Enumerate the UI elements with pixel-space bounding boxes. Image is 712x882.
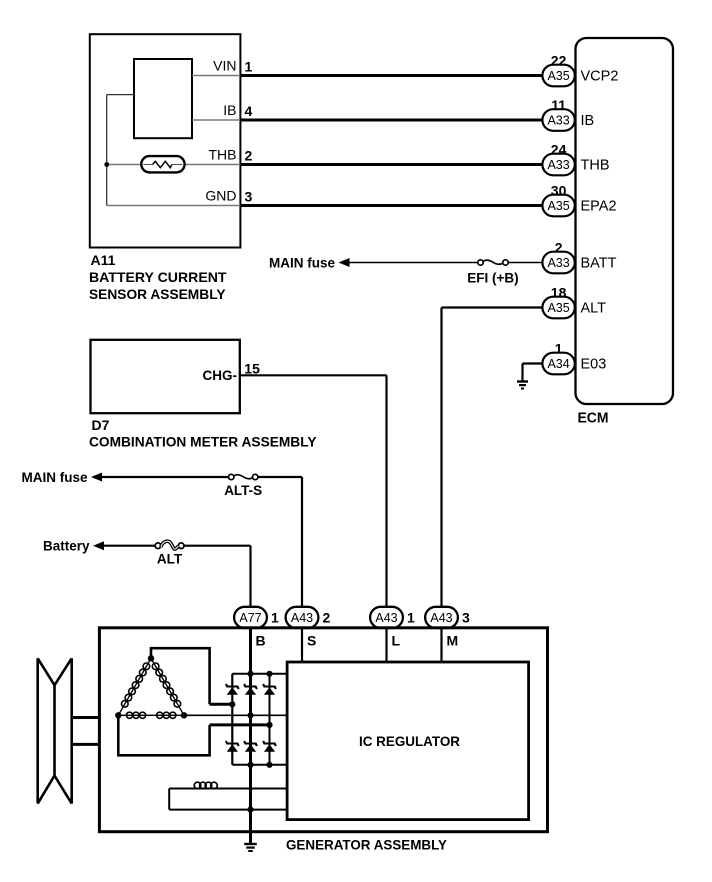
svg-text:A33: A33 <box>547 158 569 172</box>
svg-text:VCP2: VCP2 <box>581 69 619 85</box>
svg-text:ALT: ALT <box>157 552 183 567</box>
svg-text:A43: A43 <box>375 611 397 625</box>
svg-text:A11: A11 <box>91 252 116 268</box>
svg-text:ALT: ALT <box>581 301 607 317</box>
svg-text:SENSOR ASSEMBLY: SENSOR ASSEMBLY <box>89 286 226 302</box>
svg-text:11: 11 <box>551 97 566 113</box>
svg-text:E03: E03 <box>581 357 607 373</box>
svg-text:3: 3 <box>462 609 470 625</box>
svg-text:S: S <box>307 633 316 649</box>
svg-text:L: L <box>392 633 401 649</box>
svg-text:MAIN fuse: MAIN fuse <box>269 255 335 270</box>
svg-text:3: 3 <box>245 189 253 205</box>
svg-text:CHG-: CHG- <box>203 368 238 383</box>
svg-text:B: B <box>256 633 266 649</box>
svg-text:A33: A33 <box>547 256 569 270</box>
svg-text:2: 2 <box>555 239 563 255</box>
svg-text:A43: A43 <box>291 611 313 625</box>
svg-text:D7: D7 <box>92 417 110 433</box>
svg-text:1: 1 <box>555 340 563 356</box>
svg-text:1: 1 <box>407 609 415 625</box>
svg-text:A43: A43 <box>430 611 452 625</box>
svg-text:A35: A35 <box>547 199 569 213</box>
svg-text:ALT-S: ALT-S <box>224 483 262 498</box>
svg-text:2: 2 <box>245 148 253 164</box>
svg-text:VIN: VIN <box>213 58 236 74</box>
svg-text:COMBINATION METER ASSEMBLY: COMBINATION METER ASSEMBLY <box>89 434 317 450</box>
svg-text:1: 1 <box>245 59 253 75</box>
svg-text:IB: IB <box>223 102 236 118</box>
svg-text:GND: GND <box>205 188 236 204</box>
svg-text:MAIN fuse: MAIN fuse <box>21 470 87 485</box>
svg-text:BATTERY CURRENT: BATTERY CURRENT <box>89 269 227 285</box>
svg-text:18: 18 <box>551 284 567 300</box>
svg-text:4: 4 <box>245 103 253 119</box>
svg-text:THB: THB <box>209 147 237 163</box>
svg-text:22: 22 <box>551 52 567 68</box>
svg-text:EFI (+B): EFI (+B) <box>467 270 518 285</box>
svg-text:BATT: BATT <box>581 256 617 272</box>
svg-text:EPA2: EPA2 <box>581 199 617 215</box>
svg-text:24: 24 <box>551 141 567 157</box>
svg-text:Battery: Battery <box>43 539 90 554</box>
svg-text:ECM: ECM <box>578 411 609 427</box>
svg-text:A77: A77 <box>239 611 261 625</box>
svg-text:IB: IB <box>581 113 595 129</box>
svg-text:A33: A33 <box>547 114 569 128</box>
svg-text:2: 2 <box>323 609 331 625</box>
svg-text:THB: THB <box>581 158 610 174</box>
svg-text:A34: A34 <box>547 357 569 371</box>
svg-text:A35: A35 <box>547 301 569 315</box>
svg-text:GENERATOR ASSEMBLY: GENERATOR ASSEMBLY <box>286 836 448 852</box>
svg-text:M: M <box>447 633 459 649</box>
svg-text:30: 30 <box>551 182 567 198</box>
svg-text:1: 1 <box>271 609 279 625</box>
svg-text:IC REGULATOR: IC REGULATOR <box>359 733 460 749</box>
svg-text:A35: A35 <box>547 69 569 83</box>
